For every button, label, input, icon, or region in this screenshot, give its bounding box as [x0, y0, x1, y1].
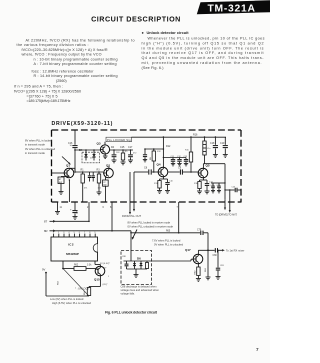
svg-text:6: 6 — [103, 207, 105, 209]
svg-text:Unlock detector circuit: Unlock detector circuit — [147, 30, 190, 35]
svg-text:7.6V when PLL is locked: 7.6V when PLL is locked — [152, 238, 181, 242]
svg-text:IC2: IC2 — [68, 243, 74, 247]
svg-text:+: + — [70, 209, 72, 212]
note arrow to D6 feed — [133, 230, 138, 239]
svg-text:Q17: Q17 — [185, 248, 191, 252]
wire Q5 collector to output — [202, 164, 204, 170]
svg-text:FROM PLL OUT: FROM PLL OUT — [122, 214, 141, 218]
wire Q1 emitter branch — [67, 176, 70, 178]
wire Q4 base with capacitor C8 — [134, 171, 148, 173]
D6 detector dashed box — [121, 251, 152, 285]
coupling capacitor C24 to right edge — [224, 189, 225, 190]
svg-text:Fig. 6 PLL unlock detector ci: Fig. 6 PLL unlock detector circuit — [105, 311, 158, 315]
svg-text:5: 5 — [74, 232, 76, 234]
svg-text:=[37760 + 75] X 5: =[37760 + 75] X 5 — [27, 94, 58, 98]
ground under W1 — [59, 192, 64, 195]
wire pin8 down to 8R — [111, 202, 113, 231]
Q17 collector node — [197, 250, 199, 255]
to RX mixer arrow — [222, 249, 225, 251]
capacitor C81 — [217, 250, 219, 267]
svg-text:R81: R81 — [205, 267, 207, 272]
D6 common node and ground — [127, 268, 148, 270]
svg-text:that during receive Q17 is OFF: that during receive Q17 is OFF, and duri… — [142, 51, 264, 55]
svg-text:in the module unit (drive unit: in the module unit (drive unit) turn OFF… — [142, 46, 264, 50]
wire pin2 down to 8T — [88, 202, 90, 221]
svg-text:=189.175(kHz)=189.175MHz: =189.175(kHz)=189.175MHz — [27, 99, 71, 103]
svg-text:R8: R8 — [150, 156, 152, 160]
wire node to Q1 collector — [74, 150, 76, 172]
svg-text:C19: C19 — [220, 142, 225, 145]
svg-text:n : 10-bit binary programmable: n : 10-bit binary programmable counter s… — [34, 57, 118, 61]
svg-text:R1: R1 — [81, 169, 85, 172]
PLL LOCKED Sig boxed label — [106, 137, 132, 142]
pin arrowheads — [129, 212, 131, 215]
svg-text:1.5u: 1.5u — [207, 148, 211, 150]
svg-text:11: 11 — [60, 207, 63, 209]
8R rail to Q17 area — [112, 230, 131, 232]
capacitor C13 — [185, 158, 187, 160]
wire Q3 base line — [75, 149, 100, 151]
svg-text:R12: R12 — [166, 145, 171, 148]
capacitor C88 — [126, 261, 128, 264]
diode D4b — [93, 150, 95, 154]
pin stubs 3 and 9 — [129, 172, 131, 202]
resistor R15 rail to Q5 base — [190, 137, 192, 152]
capacitor C17 — [130, 150, 132, 154]
right column text — [142, 30, 265, 70]
pin 11 stub and ground — [57, 202, 59, 212]
svg-text:R5: R5 — [125, 151, 128, 153]
svg-text:Q2: Q2 — [106, 164, 110, 168]
svg-text:where, fVCO : Frequency output: where, fVCO : Frequency output by the VC… — [22, 53, 102, 57]
diode D6b — [140, 261, 142, 263]
bias wire below node — [207, 250, 209, 277]
wire Q1 down to pin 2 — [68, 180, 70, 202]
ferrite bead box W1 — [58, 177, 64, 184]
svg-text:0V when PLL unlocked in receiv: 0V when PLL unlocked in receive mode — [128, 225, 174, 229]
resistor R5 — [122, 150, 124, 153]
IC2 supply pin to Q15 collector — [99, 265, 101, 268]
svg-text:If n = 295 and A = 75, then :: If n = 295 and A = 75, then : — [14, 85, 63, 89]
resistor R18 — [199, 180, 201, 182]
svg-text:R4: R4 — [111, 146, 115, 149]
svg-text:C18: C18 — [210, 142, 215, 145]
resistor R62 — [63, 268, 74, 270]
ground under R3 — [97, 192, 102, 195]
Q15 emitter — [99, 274, 101, 286]
wire Q3 emitter — [104, 153, 106, 157]
svg-text:4: 4 — [68, 232, 70, 234]
wire Q4 emitter cluster — [162, 175, 164, 179]
svg-text:PLL LOCKED Sig: PLL LOCKED Sig — [107, 138, 131, 142]
wire down to Q17 collector node — [207, 233, 209, 251]
capacitor C14 — [206, 180, 208, 183]
svg-text:1: 1 — [53, 232, 55, 234]
svg-text:C8: C8 — [144, 167, 148, 170]
svg-text:3.3k: 3.3k — [87, 265, 92, 267]
wire Q1 collector to top node — [68, 168, 70, 169]
output filter shield box — [224, 164, 226, 200]
svg-text:C17: C17 — [128, 146, 133, 149]
svg-text:(2560): (2560) — [56, 79, 67, 83]
supply rail — [132, 136, 227, 138]
svg-text:1: 1 — [108, 276, 110, 278]
wire Q1-Q2 coupling — [75, 171, 103, 173]
svg-text:fosc : 12.8MHz reference osci: fosc : 12.8MHz reference oscillator — [32, 69, 95, 73]
svg-text:C81: C81 — [220, 265, 225, 267]
svg-text:5V (4.5V)*: 5V (4.5V)* — [100, 263, 110, 265]
svg-text:8R: 8R — [44, 229, 48, 233]
wire Q3 collector to PLL LOCKED box — [104, 142, 106, 145]
svg-text:102: 102 — [98, 188, 102, 190]
svg-text:7: 7 — [177, 207, 179, 209]
svg-text:R12: R12 — [157, 151, 162, 153]
model badge TM-321A — [197, 0, 270, 14]
capacitor C15 — [113, 150, 115, 154]
svg-text:9: 9 — [94, 232, 96, 234]
capacitor C11 — [172, 158, 174, 160]
svg-text:R63: R63 — [58, 280, 60, 285]
unit bottom dashed edge — [52, 201, 242, 203]
svg-text:D6: D6 — [137, 256, 141, 260]
svg-text:fVCO=(220–30.825MHz)=((n X 128: fVCO=(220–30.825MHz)=((n X 128) + A) X f… — [22, 48, 108, 52]
svg-text:mit, preventing unwanted radia: mit, preventing unwanted radiation from … — [142, 61, 262, 65]
svg-text:the various frequency division: the various frequency division ratios : — [17, 43, 89, 47]
IC2 unlock output pin wire — [62, 261, 64, 269]
svg-text:C76: C76 — [77, 209, 79, 214]
ground under C15 — [112, 160, 117, 163]
electrolytic capacitor C7 — [74, 202, 76, 210]
svg-text:7: 7 — [84, 232, 86, 234]
svg-text:9V: 9V — [42, 268, 45, 272]
svg-text:D4: D4 — [79, 148, 83, 152]
svg-text:Q4: Q4 — [157, 162, 161, 166]
svg-text:voltage rises and advanced whe: voltage rises and advanced when — [121, 288, 160, 292]
wire Q2 emitter to pin 6 — [105, 186, 107, 202]
svg-text:D4: D4 — [90, 158, 93, 160]
left column text — [14, 39, 135, 104]
diode sub-box D4 dashed — [82, 152, 100, 163]
svg-text:10u: 10u — [70, 145, 73, 147]
diode D6a — [134, 261, 136, 263]
svg-text:8T: 8T — [44, 219, 48, 223]
svg-text:Q4 and Q5 in the module unit a: Q4 and Q5 in the module unit are OFF. Th… — [142, 56, 265, 60]
wire C16 lead from top edge — [74, 130, 76, 145]
wire Q4 collector to rail — [162, 137, 164, 169]
svg-text:C10: C10 — [169, 181, 174, 183]
svg-text:TM-321A: TM-321A — [208, 4, 256, 15]
spec box under Q2 — [105, 176, 107, 180]
svg-text:0V when PLL is unlocked: 0V when PLL is unlocked — [25, 147, 56, 151]
resistor R13 — [159, 179, 161, 181]
wire C16 to base node — [74, 148, 76, 150]
IC2 top pin stubs — [54, 234, 96, 237]
svg-text:CIRCUIT DESCRIPTION: CIRCUIT DESCRIPTION — [91, 15, 181, 24]
wire Q2 collector stub — [108, 166, 110, 170]
svg-text:472: 472 — [133, 153, 137, 155]
svg-text:high (“H”) (0.5V), turning off: high (“H”) (0.5V), turning off Q15 so th… — [142, 41, 264, 45]
svg-text:C88 discharge is delayed when: C88 discharge is delayed when — [121, 284, 158, 288]
node dots on base line — [85, 149, 87, 151]
svg-text:8V when PLL is locked: 8V when PLL is locked — [25, 139, 53, 143]
resistor R66 — [146, 261, 148, 263]
svg-text:(0V)*: (0V)* — [103, 284, 108, 286]
svg-text:in transmit mode: in transmit mode — [25, 143, 45, 147]
svg-text:R : 14-bit binary programmable: R : 14-bit binary programmable counter s… — [34, 74, 118, 78]
IC2 M54959P body — [51, 237, 98, 261]
feed from 8R rail into D6 box — [130, 233, 132, 251]
svg-text:●: ● — [142, 31, 144, 35]
capacitor C3 — [89, 172, 91, 175]
drive unit dashed box top edge — [52, 129, 242, 131]
svg-text:DRIVE(X59-3120-11): DRIVE(X59-3120-11) — [52, 121, 113, 127]
drive unit dashed box left edge — [51, 130, 53, 202]
Q5 emitter network — [202, 176, 204, 180]
filter caps — [224, 182, 225, 183]
capacitor C6 — [144, 149, 146, 154]
svg-text:Whenever the PLL is unlocked,: Whenever the PLL is unlocked, pin 10 of … — [148, 37, 265, 41]
svg-text:8V when PLL locked in receive: 8V when PLL locked in receive mode — [128, 221, 171, 225]
svg-text:To 1st RX mixer: To 1st RX mixer — [226, 249, 244, 253]
svg-text:C15: C15 — [120, 146, 125, 149]
unlock level callout line — [63, 269, 89, 296]
svg-text:Q3: Q3 — [97, 142, 101, 146]
svg-text:C13: C13 — [184, 156, 189, 158]
transistor Q15 — [95, 266, 105, 276]
svg-text:0V when PLL is unlocked: 0V when PLL is unlocked — [154, 242, 184, 246]
svg-text:R80: R80 — [194, 270, 196, 275]
bypass cluster feed — [163, 157, 164, 158]
svg-text:103: 103 — [116, 152, 120, 154]
capacitor C19 — [224, 137, 226, 145]
svg-text:in transmit mode: in transmit mode — [25, 151, 45, 155]
svg-text:Q1: Q1 — [66, 164, 70, 168]
svg-text:BW: BW — [59, 182, 62, 184]
svg-text:7: 7 — [256, 347, 259, 352]
capacitor C12 — [179, 158, 181, 160]
svg-text:A : 7-bit binary programmable: A : 7-bit binary programmable counter se… — [34, 62, 117, 66]
svg-text:R65: R65 — [166, 231, 171, 233]
pin 7 wire down — [178, 202, 180, 233]
svg-text:Q15: Q15 — [94, 277, 100, 281]
ground under R5 — [121, 162, 126, 165]
capacitor C4 — [92, 172, 94, 175]
output pins to DRIVE and ANT — [229, 190, 231, 211]
svg-text:Low (0V) when PLL is locked: Low (0V) when PLL is locked — [50, 297, 84, 301]
svg-text:471: 471 — [84, 188, 88, 190]
svg-text:8: 8 — [89, 232, 91, 234]
diode D4a — [85, 150, 87, 154]
wire Q1 base from left edge — [52, 172, 65, 174]
capacitor C18 — [214, 137, 216, 145]
svg-text:fVCO= [(295 X 128) + 75] X 128: fVCO= [(295 X 128) + 75] X 12800/2560 — [14, 90, 81, 94]
svg-text:High (6.5V) when PLL is unlock: High (6.5V) when PLL is unlocked — [52, 301, 92, 305]
svg-text:R3: R3 — [97, 169, 101, 172]
svg-text:At 220MHz, fVCO (RX) has the f: At 220MHz, fVCO (RX) has the following r… — [26, 39, 135, 43]
svg-text:(See Fig. 6.): (See Fig. 6.) — [142, 66, 164, 70]
svg-text:C80: C80 — [213, 255, 218, 257]
svg-text:C88: C88 — [122, 256, 127, 258]
IC2 pin numbers — [53, 232, 97, 234]
resistor R8 bias — [153, 149, 155, 151]
inductor L2 rail to collector node — [204, 137, 206, 141]
svg-text:6: 6 — [79, 232, 81, 234]
svg-text:TO [DRIVE] TO ANT.: TO [DRIVE] TO ANT. — [215, 213, 238, 216]
drive unit dashed box right edge — [240, 130, 242, 203]
note: 8V when PLL locked transmit — [25, 139, 56, 156]
interstage coupling C9 — [168, 171, 180, 173]
secondary rail — [145, 148, 163, 150]
svg-text:C9: C9 — [178, 167, 182, 170]
misc value labels — [70, 145, 237, 278]
svg-text:3: 3 — [63, 232, 65, 234]
svg-text:0V*: 0V* — [103, 268, 107, 270]
svg-text:M54959P: M54959P — [66, 252, 79, 256]
capacitor C10 — [167, 179, 169, 182]
wire D6 to Q17 base — [152, 260, 192, 262]
D6 internal rail — [124, 260, 152, 262]
resistor R80 on Q17 emitter — [197, 262, 199, 267]
svg-text:R62: R62 — [74, 265, 79, 267]
svg-text:R16: R16 — [193, 134, 198, 137]
note callout arrow — [62, 157, 70, 165]
svg-text:* : UNLOCK: * : UNLOCK — [75, 286, 89, 290]
svg-text:2: 2 — [58, 232, 60, 234]
svg-text:R15: R15 — [185, 150, 190, 152]
resistor R64 — [88, 287, 90, 288]
capacitor C16 — [72, 145, 77, 147]
ground under C17 — [128, 160, 133, 163]
svg-text:voltage falls.: voltage falls. — [121, 292, 136, 296]
